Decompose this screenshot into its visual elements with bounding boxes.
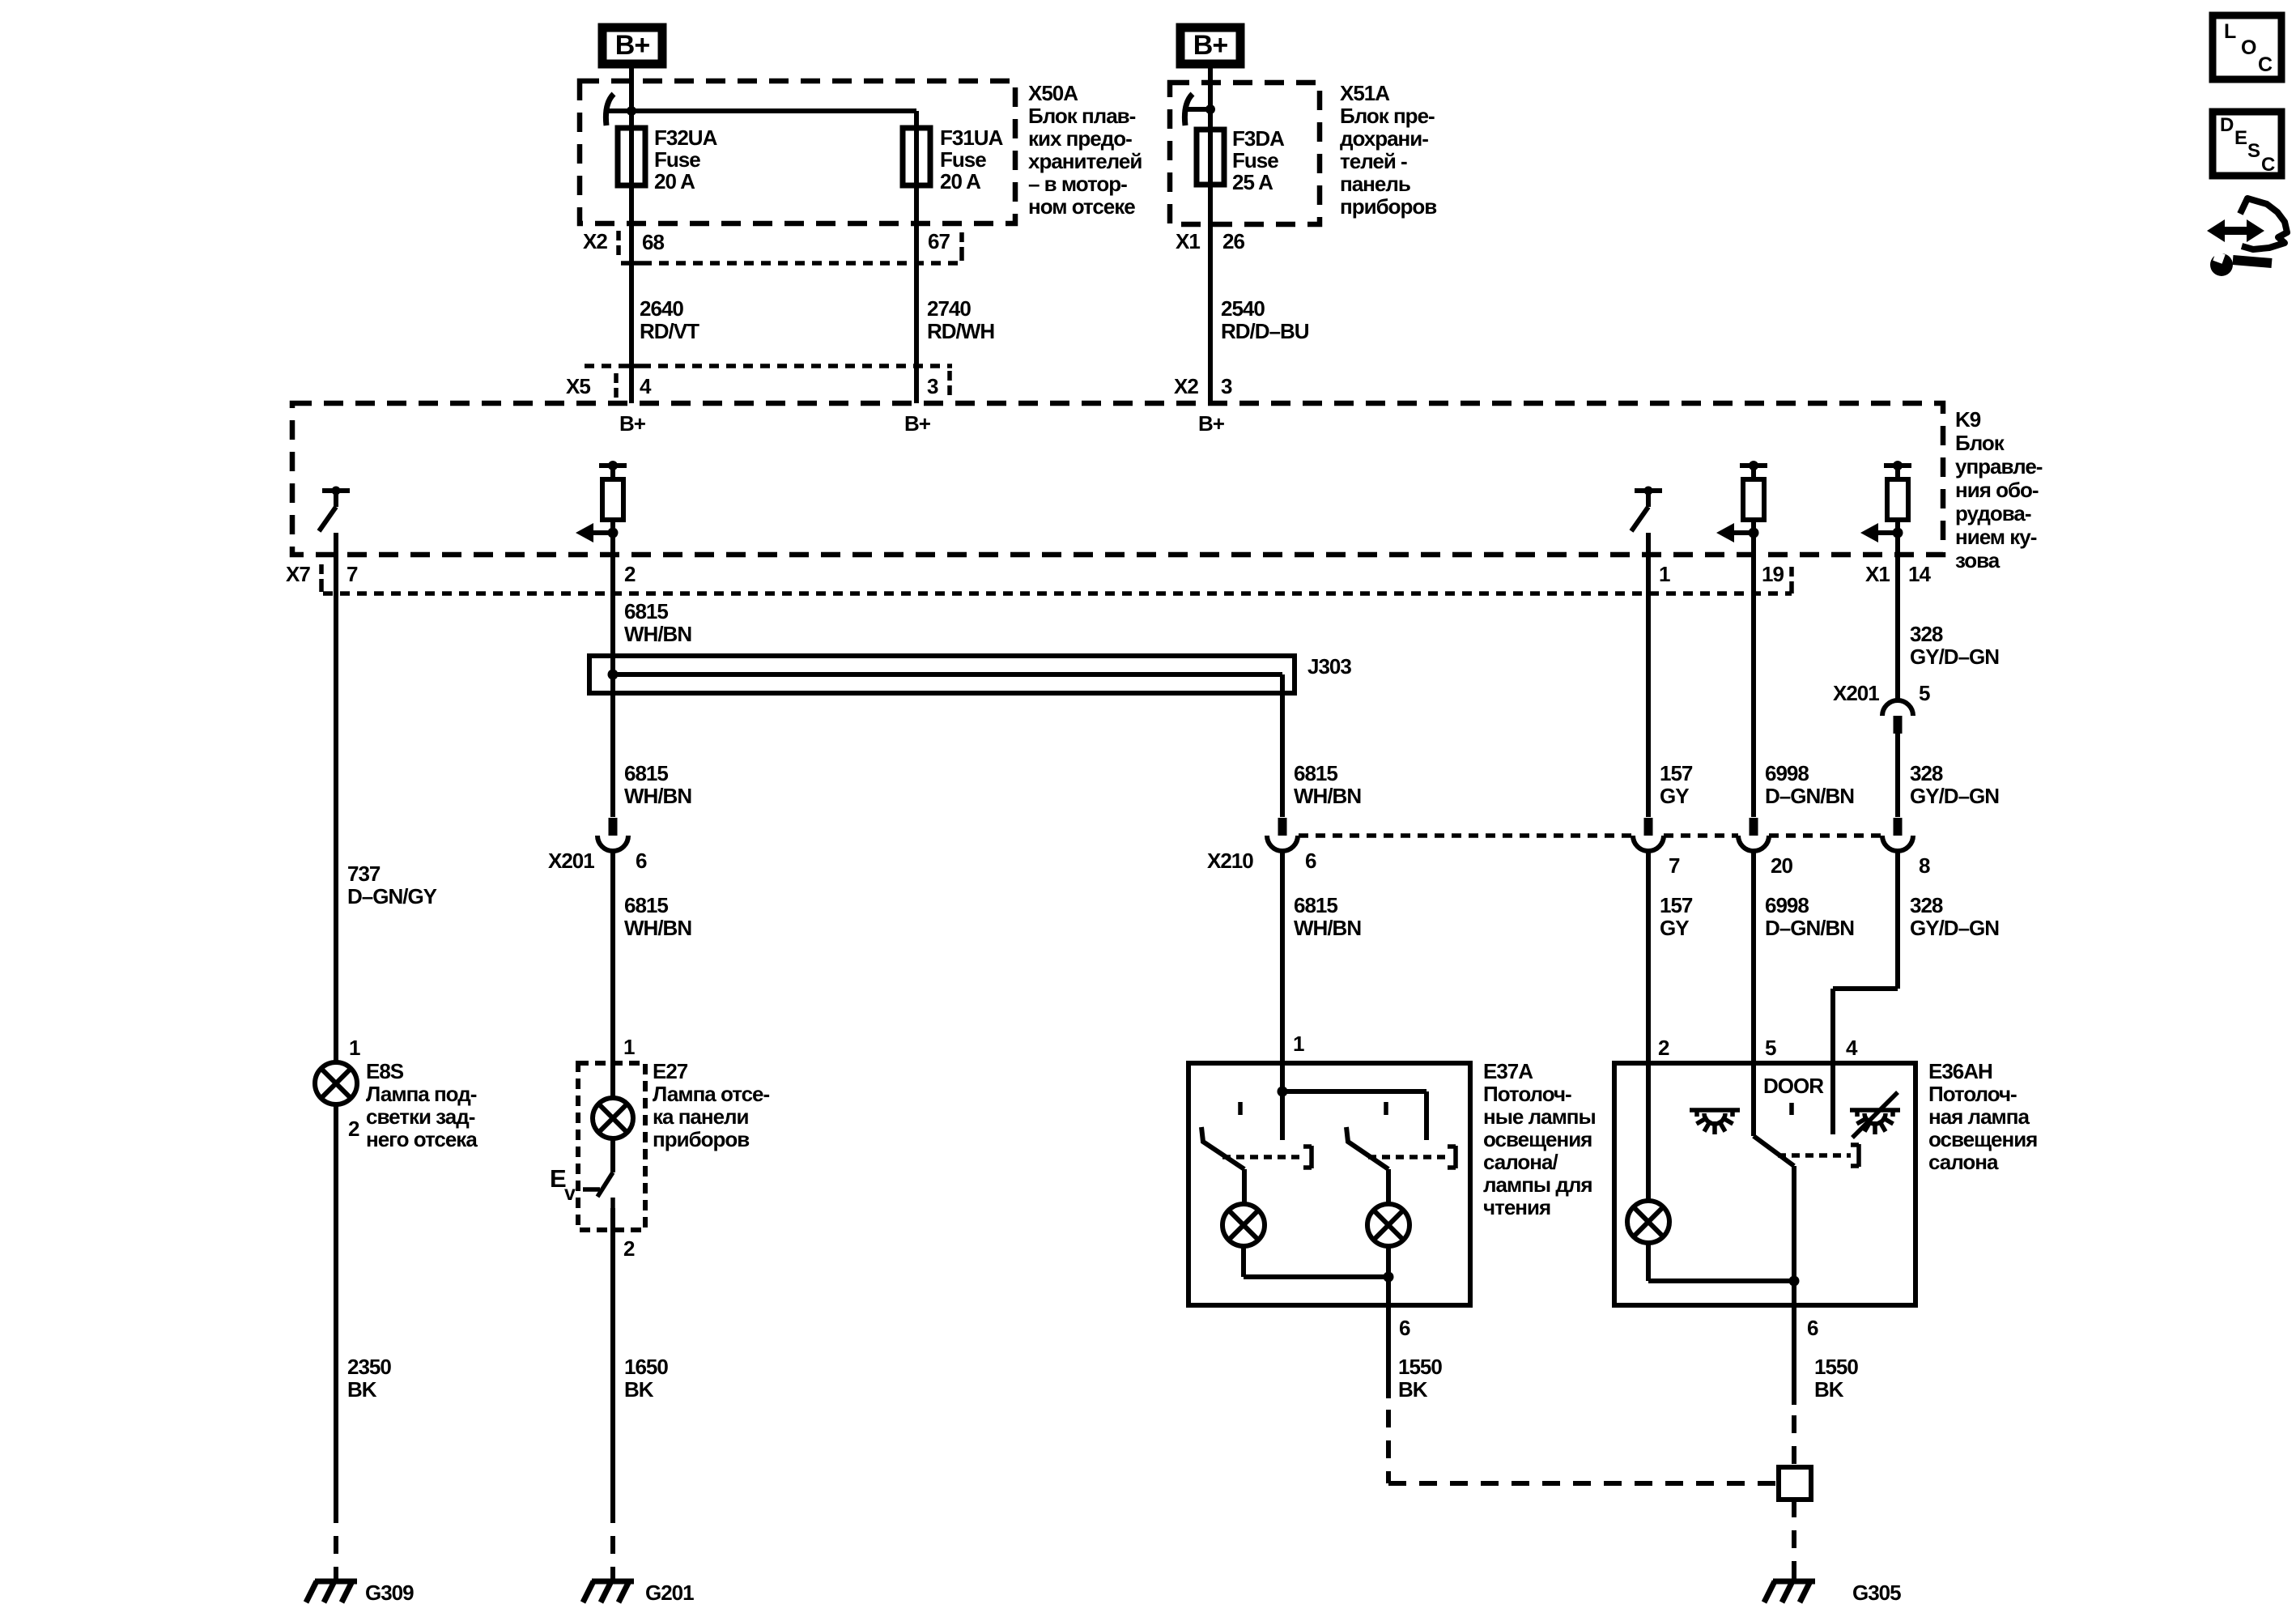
svg-text:GY/D–GN: GY/D–GN (1910, 784, 1999, 808)
svg-text:2350: 2350 (347, 1355, 391, 1379)
power symbol B+ (left) (602, 28, 662, 64)
jog to pin 4 (1833, 986, 1898, 991)
fuse F31UA (903, 128, 930, 185)
svg-text:E37A: E37A (1483, 1059, 1533, 1083)
svg-text:D–GN/BN: D–GN/BN (1765, 784, 1854, 808)
splice pack J303 (589, 656, 1295, 693)
svg-text:лампы для: лампы для (1483, 1172, 1592, 1197)
svg-text:него отсека: него отсека (366, 1127, 478, 1151)
wire into fuse F32UA (629, 111, 634, 128)
svg-text:19: 19 (1762, 562, 1784, 586)
svg-text:X1: X1 (1865, 562, 1890, 586)
wire 1650 BK (610, 1263, 615, 1505)
svg-text:L: L (2224, 20, 2236, 43)
svg-text:D: D (2220, 114, 2234, 136)
svg-text:737: 737 (347, 862, 381, 886)
svg-text:B+: B+ (1198, 411, 1225, 436)
svg-text:25 A: 25 A (1232, 170, 1273, 194)
pin4 stub inside (1830, 1063, 1835, 1134)
svg-text:O: O (2241, 36, 2256, 59)
power symbol B+ (right) (1180, 28, 1240, 64)
svg-text:D–GN/GY: D–GN/GY (347, 884, 437, 908)
svg-text:Потолоч-: Потолоч- (1928, 1082, 2017, 1106)
svg-text:Блок пре-: Блок пре- (1340, 104, 1435, 128)
in-line connector X201 pin 6 (609, 818, 618, 836)
right switch contact tick (1384, 1102, 1388, 1115)
svg-text:BK: BK (1398, 1377, 1428, 1402)
svg-text:6: 6 (636, 849, 647, 873)
svg-text:ких предо-: ких предо- (1028, 126, 1132, 151)
svg-text:Fuse: Fuse (654, 147, 700, 172)
svg-text:WH/BN: WH/BN (1294, 784, 1361, 808)
left switch blade (1201, 1127, 1244, 1169)
pin 6 (1792, 1305, 1796, 1405)
lamp E27 (593, 1098, 633, 1138)
wire 737 D-GN/GY (334, 594, 338, 1063)
svg-text:GY: GY (1660, 916, 1689, 940)
K9 output driver (pin 19) (1740, 463, 1767, 468)
wire 2540 RD/D-BU (1208, 263, 1213, 403)
svg-text:G305: G305 (1852, 1581, 1901, 1605)
svg-text:5: 5 (1765, 1036, 1776, 1060)
svg-text:2: 2 (348, 1117, 359, 1141)
battery stud clip (1184, 94, 1193, 126)
svg-text:BK: BK (347, 1377, 377, 1402)
svg-text:328: 328 (1910, 893, 1943, 917)
svg-text:328: 328 (1910, 622, 1943, 646)
svg-text:X50A: X50A (1028, 81, 1078, 105)
continuation to ground (610, 1505, 615, 1581)
node (1186, 107, 1210, 112)
svg-text:RD/D–BU: RD/D–BU (1221, 319, 1309, 343)
svg-text:WH/BN: WH/BN (624, 784, 691, 808)
lamp (left reading) (1222, 1204, 1265, 1246)
svg-text:BK: BK (624, 1377, 654, 1402)
svg-text:Блок: Блок (1955, 431, 2005, 455)
harness connector row dashes (1299, 833, 1633, 838)
svg-text:освещения: освещения (1928, 1127, 2037, 1151)
wire to pin 2 (610, 1208, 615, 1263)
svg-text:4: 4 (1846, 1036, 1858, 1060)
svg-text:v: v (564, 1182, 576, 1205)
fuse F3DA (1208, 109, 1213, 130)
svg-text:приборов: приборов (1340, 194, 1436, 219)
svg-text:K9: K9 (1955, 407, 1981, 432)
wire 6815 WH/BN below J303 (610, 693, 615, 817)
lamp (right reading) (1367, 1204, 1409, 1246)
svg-text:Лампа под-: Лампа под- (366, 1082, 477, 1106)
internal feed (1280, 1063, 1285, 1140)
svg-text:7: 7 (1669, 853, 1680, 878)
svg-text:20: 20 (1771, 853, 1792, 878)
K9 output switch (pin 1) (1635, 488, 1662, 493)
svg-text:X51A: X51A (1340, 81, 1390, 105)
svg-text:F3DA: F3DA (1232, 126, 1285, 151)
svg-text:20 A: 20 A (654, 169, 695, 194)
lamp E36AH (1627, 1201, 1669, 1243)
wire 6815 WH/BN to E37A (1280, 851, 1285, 1063)
left switch contact tick (1238, 1102, 1243, 1115)
continuation to splice (1792, 1415, 1796, 1467)
svg-text:BK: BK (1814, 1377, 1844, 1402)
dome lamp E36AH outline (1614, 1063, 1915, 1305)
svg-text:WH/BN: WH/BN (1294, 916, 1361, 940)
svg-text:нием ку-: нием ку- (1955, 525, 2037, 549)
fuse block X51A outline (1170, 83, 1320, 224)
connector pin 8 (1894, 818, 1903, 836)
fuse F32UA (618, 128, 645, 185)
mech link (1778, 1153, 1851, 1158)
svg-text:RD/VT: RD/VT (640, 319, 699, 343)
svg-text:1: 1 (349, 1036, 360, 1060)
svg-text:1: 1 (623, 1035, 635, 1059)
svg-text:панель: панель (1340, 172, 1410, 196)
icon LOC (2213, 15, 2281, 79)
connector pin 20 (1750, 818, 1758, 836)
ECU K9 outline (292, 403, 1943, 555)
svg-text:GY/D–GN: GY/D–GN (1910, 916, 1999, 940)
svg-text:ка панели: ка панели (653, 1104, 749, 1129)
K9 output driver (X1 pin 14) (1884, 463, 1911, 468)
svg-text:S: S (2247, 140, 2260, 162)
svg-text:E: E (2234, 127, 2247, 149)
svg-text:6815: 6815 (624, 599, 668, 623)
svg-text:X210: X210 (1207, 849, 1253, 873)
svg-text:2740: 2740 (927, 296, 971, 321)
svg-text:1: 1 (1659, 562, 1670, 586)
svg-text:14: 14 (1908, 562, 1931, 586)
svg-text:1550: 1550 (1814, 1355, 1858, 1379)
svg-text:6815: 6815 (624, 761, 668, 785)
continuation dashes (1386, 1410, 1391, 1483)
splice square (1779, 1467, 1811, 1500)
svg-text:E: E (550, 1164, 566, 1193)
left mech link (1222, 1155, 1302, 1159)
svg-text:Лампа отсе-: Лампа отсе- (653, 1082, 770, 1106)
wire 2640 RD/VT (629, 263, 634, 366)
svg-text:D–GN/BN: D–GN/BN (1765, 916, 1854, 940)
svg-text:телей -: телей - (1340, 149, 1407, 173)
svg-text:F32UA: F32UA (654, 126, 718, 150)
svg-text:2540: 2540 (1221, 296, 1265, 321)
svg-text:WH/BN: WH/BN (624, 916, 691, 940)
wire (1208, 68, 1213, 109)
svg-text:2: 2 (623, 1236, 635, 1261)
svg-text:WH/BN: WH/BN (624, 622, 691, 646)
svg-text:E8S: E8S (366, 1059, 404, 1083)
svg-text:67: 67 (928, 229, 950, 253)
svg-text:6815: 6815 (1294, 893, 1337, 917)
right mech link (1368, 1155, 1446, 1159)
in-line connector X210 pin 6 (1278, 818, 1287, 836)
wire to pin 26 (1208, 185, 1213, 263)
lamp E8S (315, 1062, 357, 1104)
svg-text:светки зад-: светки зад- (366, 1104, 475, 1129)
svg-text:X2: X2 (583, 229, 607, 253)
icon DESC (2213, 112, 2281, 176)
svg-text:B+: B+ (615, 30, 650, 61)
svg-text:6815: 6815 (1294, 761, 1337, 785)
svg-text:157: 157 (1660, 893, 1693, 917)
lamp assembly E27 outline (578, 1063, 645, 1230)
svg-text:3: 3 (1221, 374, 1232, 398)
svg-text:E36AH: E36AH (1928, 1059, 1992, 1083)
ground G309 (315, 1579, 357, 1585)
svg-text:Fuse: Fuse (1232, 148, 1278, 172)
svg-text:ном отсеке: ном отсеке (1028, 194, 1135, 219)
dome lamp assembly E37A outline (1188, 1063, 1470, 1305)
svg-text:зова: зова (1955, 548, 2000, 572)
ground G305 (1773, 1579, 1815, 1585)
wire F32UA to pin 68 (629, 185, 634, 263)
svg-text:F31UA: F31UA (940, 126, 1004, 150)
svg-text:6998: 6998 (1765, 893, 1809, 917)
svg-text:X2: X2 (1174, 374, 1198, 398)
svg-text:ные лампы: ные лампы (1483, 1104, 1596, 1129)
continuation to ground (334, 1505, 338, 1581)
K9 output switch (pin 7) (322, 488, 350, 493)
wire to F31UA (631, 108, 916, 113)
wire F31UA to pin 67 (914, 185, 919, 263)
K9 output driver (pin 2) (599, 463, 627, 468)
light icon off (crossed) (1850, 1108, 1900, 1113)
svg-text:6: 6 (1807, 1316, 1818, 1340)
svg-text:6998: 6998 (1765, 761, 1809, 785)
node B+ junction (607, 108, 631, 113)
svg-text:GY: GY (1660, 784, 1689, 808)
svg-text:Блок плав-: Блок плав- (1028, 104, 1136, 128)
svg-text:68: 68 (642, 230, 664, 254)
svg-text:хранителей: хранителей (1028, 149, 1142, 173)
svg-text:X5: X5 (566, 374, 590, 398)
wires into K9 (629, 366, 634, 403)
fuse block X50A outline (580, 81, 1015, 223)
connector X5 pin row (585, 364, 620, 368)
svg-text:X201: X201 (548, 849, 594, 873)
wire 6815 WH/BN to E27 (610, 851, 615, 1063)
svg-text:Потолоч-: Потолоч- (1483, 1082, 1571, 1106)
svg-text:X1: X1 (1176, 229, 1200, 253)
svg-text:GY/D–GN: GY/D–GN (1910, 645, 1999, 669)
svg-text:5: 5 (1919, 681, 1930, 705)
pin 6 (1386, 1305, 1391, 1398)
svg-text:C: C (2258, 53, 2273, 76)
svg-text:X7: X7 (286, 562, 310, 586)
switch blade (597, 1172, 613, 1197)
svg-text:салона: салона (1928, 1150, 1999, 1174)
svg-text:E27: E27 (653, 1059, 688, 1083)
svg-text:рудова-: рудова- (1955, 501, 2031, 525)
svg-text:– в мотор-: – в мотор- (1028, 172, 1127, 196)
svg-text:1: 1 (1293, 1032, 1304, 1056)
connector pin 7 (1644, 818, 1653, 836)
svg-text:дохрани-: дохрани- (1340, 126, 1428, 151)
wire 6815 WH/BN (J303 to X210) (1280, 693, 1285, 817)
svg-text:B+: B+ (904, 411, 931, 436)
svg-text:RD/WH: RD/WH (927, 319, 994, 343)
svg-text:26: 26 (1222, 229, 1244, 253)
svg-text:157: 157 (1660, 761, 1693, 785)
svg-text:приборов: приборов (653, 1127, 749, 1151)
svg-text:B+: B+ (619, 411, 646, 436)
svg-text:4: 4 (640, 374, 652, 398)
svg-text:чтения: чтения (1483, 1195, 1550, 1219)
svg-text:X201: X201 (1833, 681, 1879, 705)
svg-text:2: 2 (1658, 1036, 1669, 1060)
svg-text:8: 8 (1919, 853, 1930, 878)
svg-text:1650: 1650 (624, 1355, 668, 1379)
svg-text:G201: G201 (645, 1581, 694, 1605)
svg-text:B+: B+ (1193, 30, 1228, 61)
svg-text:6: 6 (1305, 849, 1316, 873)
svg-text:328: 328 (1910, 761, 1943, 785)
svg-text:G309: G309 (365, 1581, 414, 1605)
wire 2350 BK (334, 1104, 338, 1505)
battery stud clip (606, 94, 614, 126)
svg-text:управле-: управле- (1955, 454, 2043, 479)
light icon on (1690, 1108, 1740, 1113)
right switch blade (1346, 1127, 1388, 1169)
svg-text:J303: J303 (1307, 654, 1351, 679)
svg-text:2: 2 (624, 562, 636, 586)
svg-text:2640: 2640 (640, 296, 683, 321)
svg-text:Fuse: Fuse (940, 147, 986, 172)
ground G201 (592, 1579, 634, 1585)
svg-text:освещения: освещения (1483, 1127, 1592, 1151)
svg-text:3: 3 (927, 374, 938, 398)
svg-text:7: 7 (347, 562, 358, 586)
svg-text:салона/: салона/ (1483, 1150, 1558, 1174)
in-line connector X201 pin 5 (1882, 700, 1913, 716)
svg-text:ния обо-: ния обо- (1955, 478, 2039, 502)
svg-text:20 A: 20 A (940, 169, 981, 194)
icon hand/wrench (2207, 219, 2264, 242)
svg-text:1550: 1550 (1398, 1355, 1442, 1379)
svg-text:6: 6 (1399, 1316, 1410, 1340)
wire to lamp (610, 1063, 615, 1098)
wire 2740 RD/WH (914, 263, 919, 366)
svg-text:ная лампа: ная лампа (1928, 1104, 2030, 1129)
pin5 wire / door switch (1751, 1063, 1756, 1136)
svg-text:DOOR: DOOR (1763, 1074, 1824, 1098)
pin2 wire to lamp (1646, 1063, 1651, 1201)
wire lamp to switch (610, 1138, 615, 1172)
svg-text:C: C (2261, 154, 2275, 176)
svg-text:6815: 6815 (624, 893, 668, 917)
wire (629, 68, 634, 111)
